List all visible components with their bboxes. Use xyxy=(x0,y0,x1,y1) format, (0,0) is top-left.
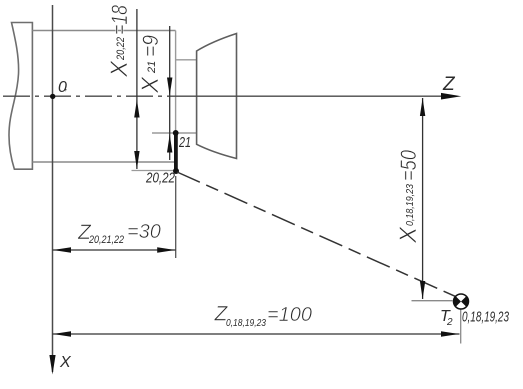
arrow up to centerline xyxy=(420,98,425,116)
extension line below tool point for Z_100 xyxy=(460,308,462,344)
label X_20,22 = 18 (rotated) xyxy=(106,4,133,78)
svg-text:20,21,22: 20,21,22 xyxy=(88,234,124,246)
arrow down to 20,22 level xyxy=(134,151,139,169)
svg-text:X: X xyxy=(59,354,72,371)
arrow down to tool level xyxy=(420,281,425,299)
svg-text:20,22: 20,22 xyxy=(145,171,175,187)
dashed tool path line from 20,22 to tool point xyxy=(177,172,456,297)
label X_0,18,19,23 = 50 (rotated) xyxy=(395,149,422,244)
dimension line Z_20,21,22 = 30 xyxy=(53,249,176,251)
svg-text:=18: =18 xyxy=(107,4,132,35)
svg-text:,: , xyxy=(65,82,68,92)
Z axis arrowhead xyxy=(441,93,461,100)
dimension line X_20,22 = 18 (vertical) xyxy=(136,9,138,169)
dimension line X_21 = 9 (vertical) xyxy=(169,26,171,160)
svg-text:X: X xyxy=(137,76,164,94)
svg-text:=30: =30 xyxy=(127,221,161,243)
svg-text:=50: =50 xyxy=(396,149,421,181)
cone (tailstock body) xyxy=(197,34,237,159)
left arrow xyxy=(53,331,71,336)
chuck (clamping block with wavy break line) xyxy=(9,23,32,170)
svg-text:21: 21 xyxy=(146,61,158,74)
X axis vertical line xyxy=(52,5,54,372)
svg-text:Z: Z xyxy=(442,74,456,95)
svg-text:=9: =9 xyxy=(138,35,163,57)
extension line at tool level xyxy=(412,300,453,302)
right arrow xyxy=(157,247,175,252)
svg-text:X: X xyxy=(106,60,133,78)
thick machined face segment between 21 and 20,22 xyxy=(174,132,178,172)
extension line below point 20,22 for Z_30 xyxy=(175,176,177,258)
label X_21 = 9 (rotated) xyxy=(137,35,164,94)
svg-text:0,18,19,23: 0,18,19,23 xyxy=(404,184,416,226)
right arrow xyxy=(441,331,459,336)
svg-text:=100: =100 xyxy=(267,304,312,326)
part bottom outline xyxy=(32,161,175,163)
arrow up to point 21 level (outside) xyxy=(167,135,172,153)
centerline (dash-dot) Z axis xyxy=(3,95,190,97)
dimension line X_0,18,19,23 = 50 (vertical) xyxy=(422,98,424,299)
origin point O xyxy=(50,94,55,99)
point 21 xyxy=(173,130,179,136)
dimension line Z_0,18,19,23 = 100 xyxy=(53,333,460,335)
small cylinder bottom edge / extension line at point 21 xyxy=(152,132,197,134)
part right face line xyxy=(175,31,177,134)
centerline solid portion to Z arrow xyxy=(190,95,456,97)
svg-text:0,18,19,23: 0,18,19,23 xyxy=(226,317,266,329)
svg-text:20,22: 20,22 xyxy=(115,37,127,61)
X axis arrowhead xyxy=(49,355,55,375)
extension line at 20,22 level xyxy=(132,170,178,172)
arrow up to centerline xyxy=(134,100,139,118)
svg-text:X: X xyxy=(395,226,422,244)
point 20,22 xyxy=(173,168,179,174)
part top outline xyxy=(32,30,175,32)
svg-text:2: 2 xyxy=(446,317,453,328)
svg-text:21: 21 xyxy=(178,134,191,151)
svg-text:0,18,19,23: 0,18,19,23 xyxy=(462,309,509,326)
tool position symbol (circle with filled left/right quadrants) xyxy=(454,294,469,309)
left arrow xyxy=(53,247,71,252)
small cylinder top edge xyxy=(176,59,197,61)
arrow down to centerline (outside) xyxy=(167,78,172,96)
